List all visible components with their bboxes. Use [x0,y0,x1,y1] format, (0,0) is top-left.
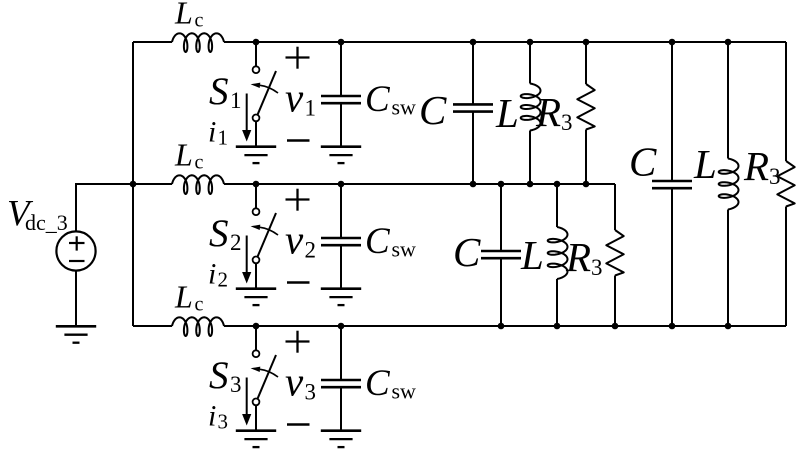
wire tank3 R lower [785,207,787,327]
capacitor Csw2 [321,237,361,240]
switch S3 blade [258,355,277,399]
svg-text:3: 3 [769,164,781,189]
ground under S2 [236,287,276,290]
switch S1 actuation arrow [260,85,278,93]
wire S2 upper [255,184,257,208]
wire top rail right segment [224,41,786,43]
node tank2 C bottom [498,323,505,330]
switch S2 actuation arrow [260,227,278,235]
wire tank3 R upper [785,42,787,161]
switch S1 blade [258,71,277,115]
svg-text:C: C [365,221,391,262]
current arrow i2 [246,236,248,274]
wire tank3 C upper [671,42,673,181]
svg-text:c: c [195,151,204,173]
switch S2 bottom contact [253,257,260,264]
label plus v2 [286,198,310,200]
svg-text:L: L [174,0,193,31]
node switch S2 rail junction [253,181,260,188]
svg-text:2: 2 [230,230,242,255]
node tank2 L top [554,181,561,188]
wire tank1 L lower [529,131,531,185]
inductor L tank1 [521,84,541,131]
label minus v2 [287,281,310,284]
node capacitor Csw2 rail junction [338,181,345,188]
capacitor Csw3 [321,379,361,382]
node tank1 L top [527,39,534,46]
capacitor C tank3 [652,180,692,183]
svg-text:R: R [535,89,561,135]
svg-text:v: v [285,74,304,120]
svg-text:R: R [565,234,591,280]
wire Csw2 upper [340,184,342,238]
node capacitor Csw1 rail junction [338,39,345,46]
ground under S1 [236,145,276,148]
svg-text:S: S [209,354,229,397]
svg-text:2: 2 [305,237,317,262]
svg-text:sw: sw [392,237,417,262]
svg-text:C: C [419,87,447,133]
capacitor Csw1 [321,95,361,98]
node tank2 R bottom [612,323,619,330]
node tank1 C bottom [470,181,477,188]
switch S3 bottom contact [253,399,260,406]
svg-text:S: S [209,70,229,113]
svg-text:3: 3 [561,110,573,135]
source plus sign [69,242,85,244]
svg-text:i: i [208,258,216,291]
wire tank3 L upper [727,42,729,159]
wire Csw3 upper [340,326,342,380]
wire Csw3 lower [340,387,342,431]
node tank3 L top [725,39,732,46]
wire S1 lower [255,121,257,146]
wire tank1 L upper [529,42,531,84]
current arrow i1 [246,94,248,132]
svg-text:c: c [195,9,204,31]
resistor R3 tank3 [777,161,794,207]
wire tank1 R lower [585,130,587,185]
inductor Lc3 [172,317,224,336]
label minus v1 [287,139,310,142]
wire tank1 C lower [472,112,474,184]
svg-text:3: 3 [591,255,603,280]
wire tank1 R upper [585,42,587,84]
wire S3 lower [255,405,257,430]
ground under Csw2 [321,287,361,290]
ground source [56,325,96,328]
switch S2 blade [258,213,277,257]
wire left DC bus vertical [132,42,134,326]
wire middle rail left segment [133,183,172,185]
node tank1 R top [583,39,590,46]
svg-text:S: S [209,212,229,255]
svg-text:sw: sw [392,95,417,120]
switch S2 top contact [253,208,260,215]
wire source to ground [75,271,77,327]
svg-text:3: 3 [230,372,242,397]
switch S3 actuation arrow [260,369,278,377]
wire bottom rail left segment [133,325,172,327]
svg-text:C: C [365,79,391,120]
svg-text:C: C [453,229,481,275]
wire tank2 R lower [614,276,616,327]
node tank2 L bottom [554,323,561,330]
wire tank3 C lower [671,188,673,326]
wire Csw1 lower [340,103,342,147]
capacitor C tank1 [453,103,493,106]
node tank2 C top [498,181,505,188]
ground under Csw3 [321,429,361,432]
svg-text:dc_3: dc_3 [25,210,68,235]
wire tank2 C lower [500,258,502,326]
node tank1 R bottom [583,181,590,188]
svg-text:1: 1 [230,88,242,113]
label plus v3 [286,340,310,342]
node capacitor Csw3 rail junction [338,323,345,330]
switch S3 top contact [253,350,260,357]
svg-text:L: L [693,141,717,187]
node tank1 L bottom [527,181,534,188]
switch S1 bottom contact [253,115,260,122]
wire tank3 L lower [727,210,729,327]
wire S2 lower [255,263,257,288]
svg-text:C: C [365,363,391,404]
svg-text:L: L [520,232,544,278]
wire S1 upper [255,42,257,66]
ground under S3 [236,429,276,432]
inductor Lc2 [172,175,224,194]
svg-text:L: L [495,90,519,136]
svg-text:L: L [174,279,193,315]
node tank3 L bottom [725,323,732,330]
svg-text:3: 3 [218,410,229,434]
svg-text:1: 1 [218,126,229,150]
svg-text:2: 2 [218,268,229,292]
node tank3 C bottom [669,323,676,330]
label minus v3 [287,423,310,426]
node junction source-bus [130,181,137,188]
svg-text:1: 1 [305,95,317,120]
wire middle rail right segment [224,183,615,185]
svg-text:i: i [208,400,216,433]
switch S1 top contact [253,66,260,73]
voltage source Vdc_3 circle [56,231,95,270]
wire bottom rail right segment [224,325,786,327]
wire tank1 C upper [472,42,474,104]
resistor R3 tank1 [577,84,594,130]
svg-text:i: i [208,116,216,149]
inductor L tank3 [719,159,739,210]
ground under Csw1 [321,145,361,148]
wire top rail left segment [133,41,172,43]
wire tank2 L upper [556,184,558,227]
wire tank2 C upper [500,184,502,251]
node tank3 C top [669,39,676,46]
svg-text:sw: sw [392,379,417,404]
inductor L tank2 [548,227,568,279]
wire tank2 R upper [614,184,616,230]
resistor R3 tank2 [606,230,623,276]
node tank1 C top [470,39,477,46]
label plus v1 [286,56,310,58]
svg-text:C: C [629,139,657,185]
node switch S1 rail junction [253,39,260,46]
node switch S3 rail junction [253,323,260,330]
svg-text:v: v [285,216,304,262]
inductor Lc1 [172,33,224,52]
svg-text:c: c [195,293,204,315]
current arrow i3 [246,378,248,416]
wire Csw2 lower [340,245,342,289]
svg-text:L: L [174,137,193,173]
source minus sign [69,260,85,262]
svg-text:v: v [285,358,304,404]
wire source to bus [76,184,133,231]
svg-text:3: 3 [305,379,317,404]
wire tank2 L lower [556,279,558,326]
wire S3 upper [255,326,257,350]
svg-text:R: R [743,143,769,189]
capacitor C tank2 [481,250,521,253]
wire Csw1 upper [340,42,342,96]
